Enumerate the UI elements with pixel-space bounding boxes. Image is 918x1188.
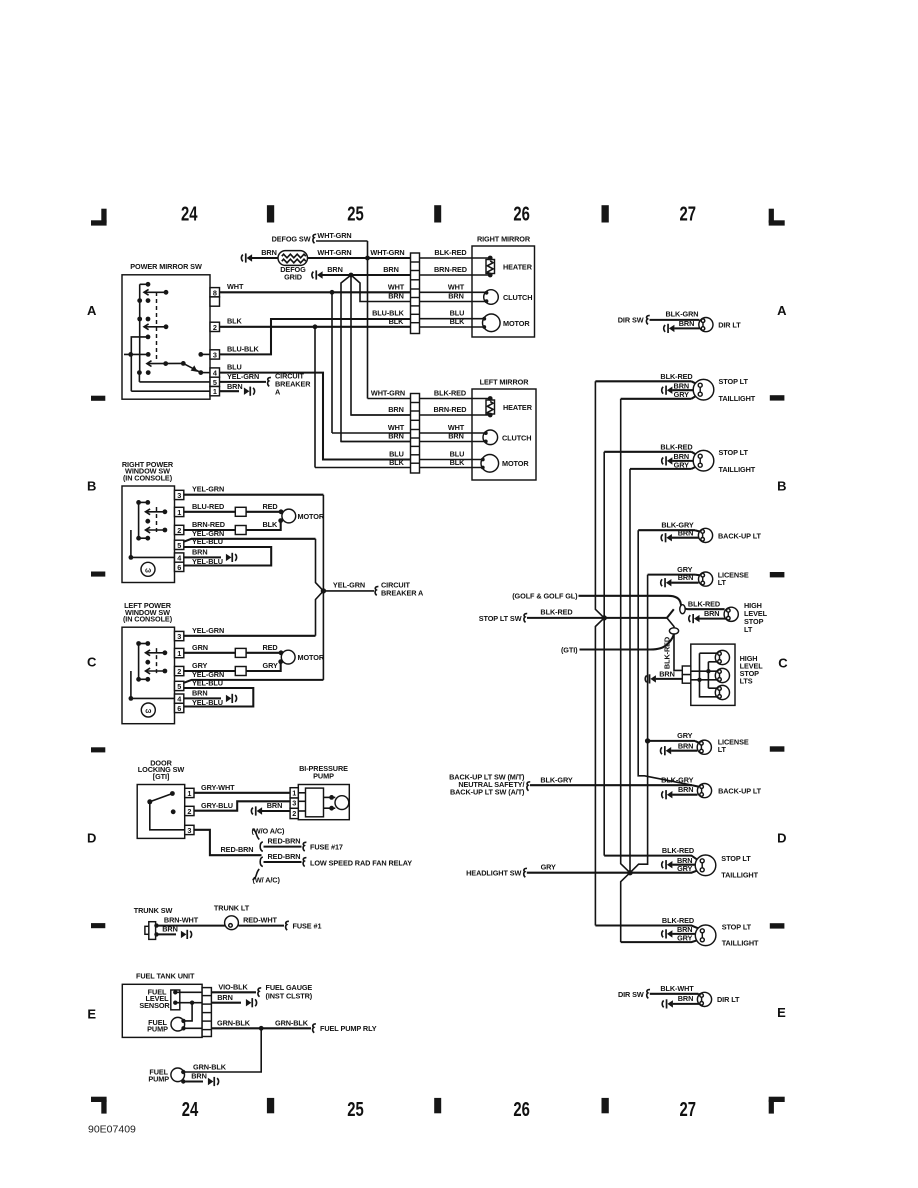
svg-text:FUSE #17: FUSE #17 (310, 843, 343, 852)
svg-text:BRN: BRN (388, 405, 404, 414)
svg-text:RED-BRN: RED-BRN (268, 852, 301, 861)
svg-text:STOP LT SW: STOP LT SW (479, 614, 522, 623)
svg-text:BLK: BLK (227, 317, 243, 326)
svg-text:BRN: BRN (192, 689, 208, 698)
svg-text:BLK-WHT: BLK-WHT (660, 984, 694, 993)
svg-text:BREAKER: BREAKER (275, 380, 311, 389)
svg-text:BRN: BRN (388, 432, 404, 441)
svg-text:(GTI): (GTI) (561, 645, 578, 654)
svg-text:BRN: BRN (217, 993, 233, 1002)
svg-text:RED-BRN: RED-BRN (221, 845, 254, 854)
svg-text:1: 1 (177, 508, 181, 517)
svg-text:MOTOR: MOTOR (298, 512, 325, 521)
svg-text:BRN-WHT: BRN-WHT (164, 916, 199, 925)
svg-text:26: 26 (513, 204, 530, 226)
svg-text:HEADLIGHT SW: HEADLIGHT SW (466, 869, 521, 878)
svg-text:24: 24 (181, 204, 198, 226)
svg-text:2: 2 (213, 323, 217, 332)
svg-text:27: 27 (680, 1099, 697, 1121)
svg-text:2: 2 (292, 809, 296, 818)
svg-text:WHT: WHT (448, 282, 465, 291)
svg-text:GRY-WHT: GRY-WHT (201, 783, 235, 792)
svg-text:BACK-UP LT: BACK-UP LT (718, 787, 762, 796)
svg-text:BRN: BRN (261, 248, 277, 257)
svg-text:BLK: BLK (389, 458, 405, 467)
svg-text:BLK-RED: BLK-RED (434, 248, 466, 257)
svg-text:BREAKER A: BREAKER A (381, 589, 424, 598)
svg-text:BRN: BRN (191, 1072, 207, 1081)
svg-text:GRY: GRY (677, 731, 692, 740)
svg-text:YEL-BLU: YEL-BLU (192, 678, 223, 687)
svg-text:YEL-GRN: YEL-GRN (192, 626, 224, 635)
svg-text:D: D (777, 831, 786, 846)
svg-text:TAILLIGHT: TAILLIGHT (721, 871, 758, 880)
svg-text:PUMP: PUMP (147, 1025, 168, 1034)
svg-text:BLK: BLK (450, 458, 466, 467)
svg-text:BLK-RED: BLK-RED (540, 607, 572, 616)
svg-text:STOP LT: STOP LT (722, 922, 752, 931)
svg-text:YEL-GRN: YEL-GRN (192, 485, 224, 494)
svg-text:ω: ω (145, 706, 151, 715)
svg-text:D: D (87, 831, 96, 846)
svg-text:E: E (777, 1005, 786, 1020)
svg-text:TRUNK LT: TRUNK LT (214, 903, 250, 912)
svg-text:3: 3 (213, 351, 217, 360)
svg-text:WHT: WHT (227, 282, 244, 291)
svg-text:BRN-RED: BRN-RED (434, 265, 467, 274)
svg-text:90E07409: 90E07409 (88, 1124, 136, 1136)
svg-text:C: C (87, 655, 97, 670)
svg-text:LTS: LTS (740, 677, 753, 686)
svg-text:24: 24 (182, 1099, 199, 1121)
svg-text:BLK-GRY: BLK-GRY (661, 775, 694, 784)
svg-text:GRY: GRY (674, 390, 689, 399)
svg-text:E: E (87, 1007, 96, 1022)
svg-text:BLK-RED: BLK-RED (688, 599, 720, 608)
svg-text:LOW SPEED RAD FAN RELAY: LOW SPEED RAD FAN RELAY (310, 858, 412, 867)
svg-text:1: 1 (213, 387, 217, 396)
svg-text:LT: LT (718, 745, 727, 754)
svg-text:GRN: GRN (192, 643, 208, 652)
svg-text:BLK: BLK (450, 317, 466, 326)
svg-text:LEFT MIRROR: LEFT MIRROR (480, 377, 530, 386)
svg-text:WHT-GRN: WHT-GRN (317, 248, 351, 257)
svg-text:DIR SW: DIR SW (618, 990, 644, 999)
svg-text:(IN CONSOLE): (IN CONSOLE) (123, 615, 173, 624)
svg-text:BRN: BRN (704, 609, 720, 618)
svg-text:PUMP: PUMP (148, 1074, 169, 1083)
svg-text:A: A (275, 388, 281, 397)
svg-text:HEATER: HEATER (503, 403, 533, 412)
svg-text:5: 5 (177, 682, 181, 691)
svg-text:GRY: GRY (541, 863, 556, 872)
svg-text:3: 3 (177, 491, 181, 500)
svg-text:BLK-RED: BLK-RED (660, 443, 692, 452)
svg-text:BRN: BRN (678, 994, 694, 1003)
svg-text:FUSE #1: FUSE #1 (293, 921, 322, 930)
svg-text:25: 25 (347, 1099, 364, 1121)
svg-text:BRN: BRN (388, 292, 404, 301)
svg-text:BACK-UP LT: BACK-UP LT (718, 531, 762, 540)
svg-text:(GOLF & GOLF GL): (GOLF & GOLF GL) (512, 592, 578, 601)
svg-text:(W/O A/C): (W/O A/C) (252, 826, 286, 835)
svg-text:YEL-BLU: YEL-BLU (192, 698, 223, 707)
svg-text:1: 1 (177, 649, 181, 658)
svg-text:A: A (777, 303, 787, 318)
svg-text:BLU-RED: BLU-RED (192, 502, 224, 511)
svg-text:FUEL TANK UNIT: FUEL TANK UNIT (136, 971, 195, 980)
svg-text:GRN-BLK: GRN-BLK (193, 1062, 227, 1071)
svg-text:3: 3 (177, 632, 181, 641)
svg-text:GRY: GRY (677, 933, 692, 942)
svg-text:1: 1 (187, 789, 191, 798)
svg-text:BRN-RED: BRN-RED (434, 405, 467, 414)
svg-text:BACK-UP LT SW (A/T): BACK-UP LT SW (A/T) (450, 788, 525, 797)
svg-text:(INST CLSTR): (INST CLSTR) (266, 992, 313, 1001)
svg-text:YEL-BLU: YEL-BLU (192, 557, 223, 566)
svg-text:BRN: BRN (659, 669, 675, 678)
svg-text:GRY: GRY (677, 864, 692, 873)
svg-text:BLK-RED: BLK-RED (662, 846, 694, 855)
svg-text:TAILLIGHT: TAILLIGHT (722, 939, 759, 948)
svg-text:BLK-RED: BLK-RED (662, 916, 694, 925)
svg-text:WHT-GRN: WHT-GRN (317, 231, 351, 240)
svg-text:25: 25 (347, 204, 364, 226)
svg-text:BRN: BRN (448, 432, 464, 441)
svg-text:BRN: BRN (162, 925, 178, 934)
svg-text:BRN: BRN (227, 382, 243, 391)
svg-text:BRN: BRN (327, 265, 343, 274)
svg-text:RIGHT MIRROR: RIGHT MIRROR (477, 235, 531, 244)
svg-text:YEL-GRN: YEL-GRN (227, 372, 259, 381)
svg-text:TAILLIGHT: TAILLIGHT (719, 465, 756, 474)
svg-text:3: 3 (292, 799, 296, 808)
svg-text:BRN: BRN (678, 785, 694, 794)
svg-text:BRN: BRN (383, 265, 399, 274)
svg-text:RED: RED (263, 502, 278, 511)
svg-text:GRY: GRY (192, 661, 207, 670)
svg-text:WHT-GRN: WHT-GRN (370, 248, 404, 257)
svg-text:TRUNK SW: TRUNK SW (134, 906, 173, 915)
svg-text:BRN: BRN (678, 741, 694, 750)
svg-text:26: 26 (513, 1099, 530, 1121)
svg-text:6: 6 (177, 563, 181, 572)
svg-text:GRY-BLU: GRY-BLU (201, 801, 233, 810)
svg-text:GRN-BLK: GRN-BLK (275, 1018, 309, 1027)
svg-text:BLK: BLK (263, 520, 279, 529)
svg-text:FUEL PUMP RLY: FUEL PUMP RLY (320, 1024, 377, 1033)
svg-text:(W/ A/C): (W/ A/C) (253, 875, 281, 884)
svg-text:BLK-GRN: BLK-GRN (666, 310, 699, 319)
svg-text:BRN: BRN (267, 801, 283, 810)
svg-text:2: 2 (177, 667, 181, 676)
svg-text:YEL-BLU: YEL-BLU (192, 537, 223, 546)
svg-text:8: 8 (213, 288, 217, 297)
svg-text:(IN CONSOLE): (IN CONSOLE) (123, 473, 173, 482)
svg-text:RED-WHT: RED-WHT (243, 916, 277, 925)
svg-text:B: B (777, 479, 786, 494)
svg-text:WHT: WHT (388, 282, 405, 291)
svg-text:BLU: BLU (227, 363, 242, 372)
svg-text:RED-BRN: RED-BRN (268, 837, 301, 846)
svg-text:MOTOR: MOTOR (298, 653, 325, 662)
svg-text:BRN: BRN (192, 548, 208, 557)
svg-text:BLK-RED: BLK-RED (660, 372, 692, 381)
svg-text:DIR LT: DIR LT (717, 995, 740, 1004)
svg-text:5: 5 (213, 378, 217, 387)
svg-text:27: 27 (680, 204, 697, 226)
svg-text:1: 1 (292, 788, 296, 797)
svg-text:2: 2 (177, 526, 181, 535)
svg-text:BRN: BRN (678, 528, 694, 537)
svg-text:CLUTCH: CLUTCH (502, 433, 531, 442)
svg-text:RED: RED (263, 643, 278, 652)
svg-text:LT: LT (718, 578, 727, 587)
svg-text:BLK-RED: BLK-RED (662, 637, 671, 669)
svg-text:5: 5 (177, 541, 181, 550)
svg-text:BLK-GRY: BLK-GRY (540, 775, 573, 784)
svg-text:DEFOG SW: DEFOG SW (272, 234, 311, 243)
svg-text:B: B (87, 479, 96, 494)
svg-text:BLU-BLK: BLU-BLK (227, 344, 260, 353)
svg-text:STOP LT: STOP LT (721, 854, 751, 863)
svg-text:STOP LT: STOP LT (719, 448, 749, 457)
svg-text:A: A (87, 303, 97, 318)
svg-text:LT: LT (744, 625, 753, 634)
svg-text:PUMP: PUMP (313, 771, 334, 780)
svg-text:SENSOR: SENSOR (139, 1001, 170, 1010)
svg-text:BRN: BRN (678, 573, 694, 582)
svg-text:VIO-BLK: VIO-BLK (218, 982, 248, 991)
svg-text:BRN: BRN (679, 319, 695, 328)
svg-text:CLUTCH: CLUTCH (503, 293, 532, 302)
svg-text:WHT-GRN: WHT-GRN (371, 389, 405, 398)
svg-text:POWER MIRROR SW: POWER MIRROR SW (130, 262, 202, 271)
svg-text:BLK-RED: BLK-RED (434, 389, 466, 398)
svg-text:GRY: GRY (263, 661, 278, 670)
svg-text:BLK: BLK (389, 317, 405, 326)
svg-text:GRID: GRID (284, 272, 302, 281)
svg-text:2: 2 (187, 807, 191, 816)
svg-text:[GTI]: [GTI] (153, 772, 170, 781)
svg-text:TAILLIGHT: TAILLIGHT (719, 394, 756, 403)
svg-text:BRN: BRN (448, 292, 464, 301)
svg-text:GRY: GRY (674, 460, 689, 469)
svg-text:3: 3 (187, 826, 191, 835)
svg-text:DIR SW: DIR SW (618, 316, 644, 325)
svg-text:MOTOR: MOTOR (503, 319, 530, 328)
svg-text:STOP LT: STOP LT (719, 377, 749, 386)
svg-text:ω: ω (145, 565, 151, 574)
svg-text:BRN-RED: BRN-RED (192, 520, 225, 529)
svg-text:YEL-GRN: YEL-GRN (333, 581, 365, 590)
svg-text:6: 6 (177, 704, 181, 713)
svg-text:HEATER: HEATER (503, 263, 533, 272)
svg-text:DIR LT: DIR LT (718, 320, 741, 329)
svg-text:GRN-BLK: GRN-BLK (217, 1018, 251, 1027)
svg-text:C: C (778, 656, 788, 671)
svg-text:MOTOR: MOTOR (502, 459, 529, 468)
